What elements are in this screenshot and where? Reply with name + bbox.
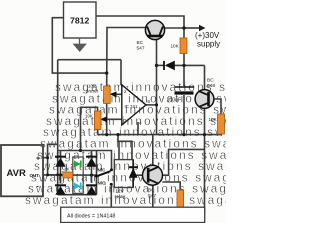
bridge diode D5 bottom-right (86, 185, 97, 195)
svg-text:547: 547 (137, 46, 145, 52)
wire Q3 right link (162, 149, 204, 175)
resistor R3 10K preset (104, 86, 111, 104)
bridge diode D2 top-left (55, 157, 66, 167)
wire pin2 from R1 wiper (112, 93, 122, 95)
wire Q2 emitter down (204, 109, 206, 135)
wire below top 10K to diode junction (183, 53, 185, 65)
wire op-amp supply box top (58, 59, 121, 61)
pin3 arrow into R4 wiper (100, 116, 107, 122)
wire op-amp V+ from box (120, 60, 122, 85)
resistor R4 10K preset lower (94, 111, 101, 130)
wire op-amp V- down (137, 122, 139, 135)
wire inner 12V rail (58, 72, 106, 74)
transistor Q3 BC547 relay driver (143, 165, 163, 199)
resistor R6 10K bottom (177, 190, 184, 210)
wire pin3 from R2 wiper (103, 118, 122, 120)
svg-text:547: 547 (148, 193, 156, 199)
wire diode D1 anode to junction (175, 64, 205, 66)
wire Q1 emitter down to op-amp output (156, 40, 158, 105)
LED box (73, 157, 83, 193)
svg-text:10K: 10K (171, 44, 180, 49)
svg-text:7812: 7812 (70, 16, 89, 26)
op-amp U1 741 (122, 85, 151, 126)
resistor R2 10K right edge (218, 114, 225, 134)
wire 7812 input left (52, 18, 64, 73)
wire bridge bottom (58, 194, 97, 196)
resistor R5 1K (63, 172, 73, 178)
wire Q3 base (133, 174, 142, 176)
wire AVR out mid (43, 174, 63, 176)
svg-text:10K: 10K (85, 114, 93, 119)
svg-text:548: 548 (207, 83, 215, 89)
svg-text:BC: BC (207, 78, 214, 84)
wire output down to bus (156, 105, 158, 135)
svg-text:1K: 1K (64, 167, 71, 172)
svg-text:BC: BC (148, 188, 155, 194)
box all-diodes note (61, 207, 205, 222)
bridge diode D4 bottom-left (55, 185, 66, 195)
svg-text:+: + (36, 156, 40, 163)
wire N/O drop (110, 186, 112, 207)
wire R2 bottom to bus (97, 130, 99, 135)
wire bottom right L (180, 210, 204, 215)
relay contact N/O (98, 181, 113, 186)
svg-text:relay: relay (115, 194, 126, 199)
LED green (74, 161, 81, 168)
wire R6 top link (162, 182, 180, 190)
wire diode D1 cathode side (157, 64, 165, 66)
LED cyan (74, 183, 81, 190)
wire right drop rail (204, 135, 206, 215)
wire op-amp output (146, 104, 157, 106)
wire right 10K bottom to bus (220, 133, 222, 136)
relay coil box (114, 160, 133, 188)
wire bridge right rail (96, 151, 98, 195)
svg-text:N/C: N/C (98, 168, 107, 173)
wire op-amp supply box left rail (57, 60, 59, 195)
wire Q3 collector (152, 135, 154, 166)
wire top rail 7812 to +30V corner (96, 16, 184, 38)
svg-text:12V: 12V (116, 189, 125, 194)
resistor R1 10K top right (180, 38, 187, 54)
wire horizontal bus A (98, 134, 222, 136)
watermark swagatam innovations (25, 80, 320, 207)
svg-text:AVR: AVR (7, 168, 26, 179)
wire capacitor bottom down to bus (183, 95, 185, 135)
wire Q2 base to right (214, 99, 222, 114)
transistor Q1 BC547 top (137, 20, 165, 51)
wire relay coil risers (118, 135, 132, 160)
diode D6 flyback (129, 160, 138, 188)
svg-text:supply: supply (197, 40, 220, 49)
wire R2 top hook (81, 107, 98, 150)
svg-text:IC 741: IC 741 (125, 104, 138, 109)
svg-text:OUT: OUT (30, 173, 40, 178)
svg-text:swagatam innovations swagatam: swagatam innovations swagatam innovation… (25, 193, 226, 207)
wire bridge mid (73, 174, 97, 176)
wire bridge diode stubs right (91, 151, 93, 158)
relay contact N/C (98, 168, 114, 173)
box 7812 regulator (64, 2, 97, 38)
wire junction down to capacitor (183, 65, 185, 86)
svg-text:100uF: 100uF (167, 98, 182, 104)
relay pole lever (95, 171, 111, 177)
wire bridge top (58, 151, 112, 169)
wire Q2 collector drop (204, 65, 206, 90)
box AVR (1, 145, 43, 196)
wire R1 preset bottom to bus (106, 104, 108, 135)
capacitor C1 100uF (167, 87, 194, 104)
svg-text:preset: preset (86, 89, 99, 94)
node +30V supply arrow (184, 25, 220, 49)
transistor Q2 BC548 right (195, 78, 215, 109)
wire AVR plus (43, 157, 48, 159)
wire bridge diode stubs left (60, 151, 62, 158)
svg-text:BC: BC (137, 40, 144, 46)
bridge diode D3 top-right (86, 157, 97, 167)
svg-text:All diodes = 1N4148: All diodes = 1N4148 (67, 214, 115, 220)
pin2 arrow into R3 wiper (110, 91, 117, 97)
wire Q1 base rail (107, 28, 146, 87)
diode D1 (164, 61, 175, 71)
ground symbol (74, 38, 86, 51)
wire Q1 collector to rail (165, 27, 185, 29)
svg-text:N/O: N/O (98, 181, 107, 186)
wire Q3 emitter (152, 185, 154, 207)
svg-text:10K: 10K (209, 117, 218, 122)
